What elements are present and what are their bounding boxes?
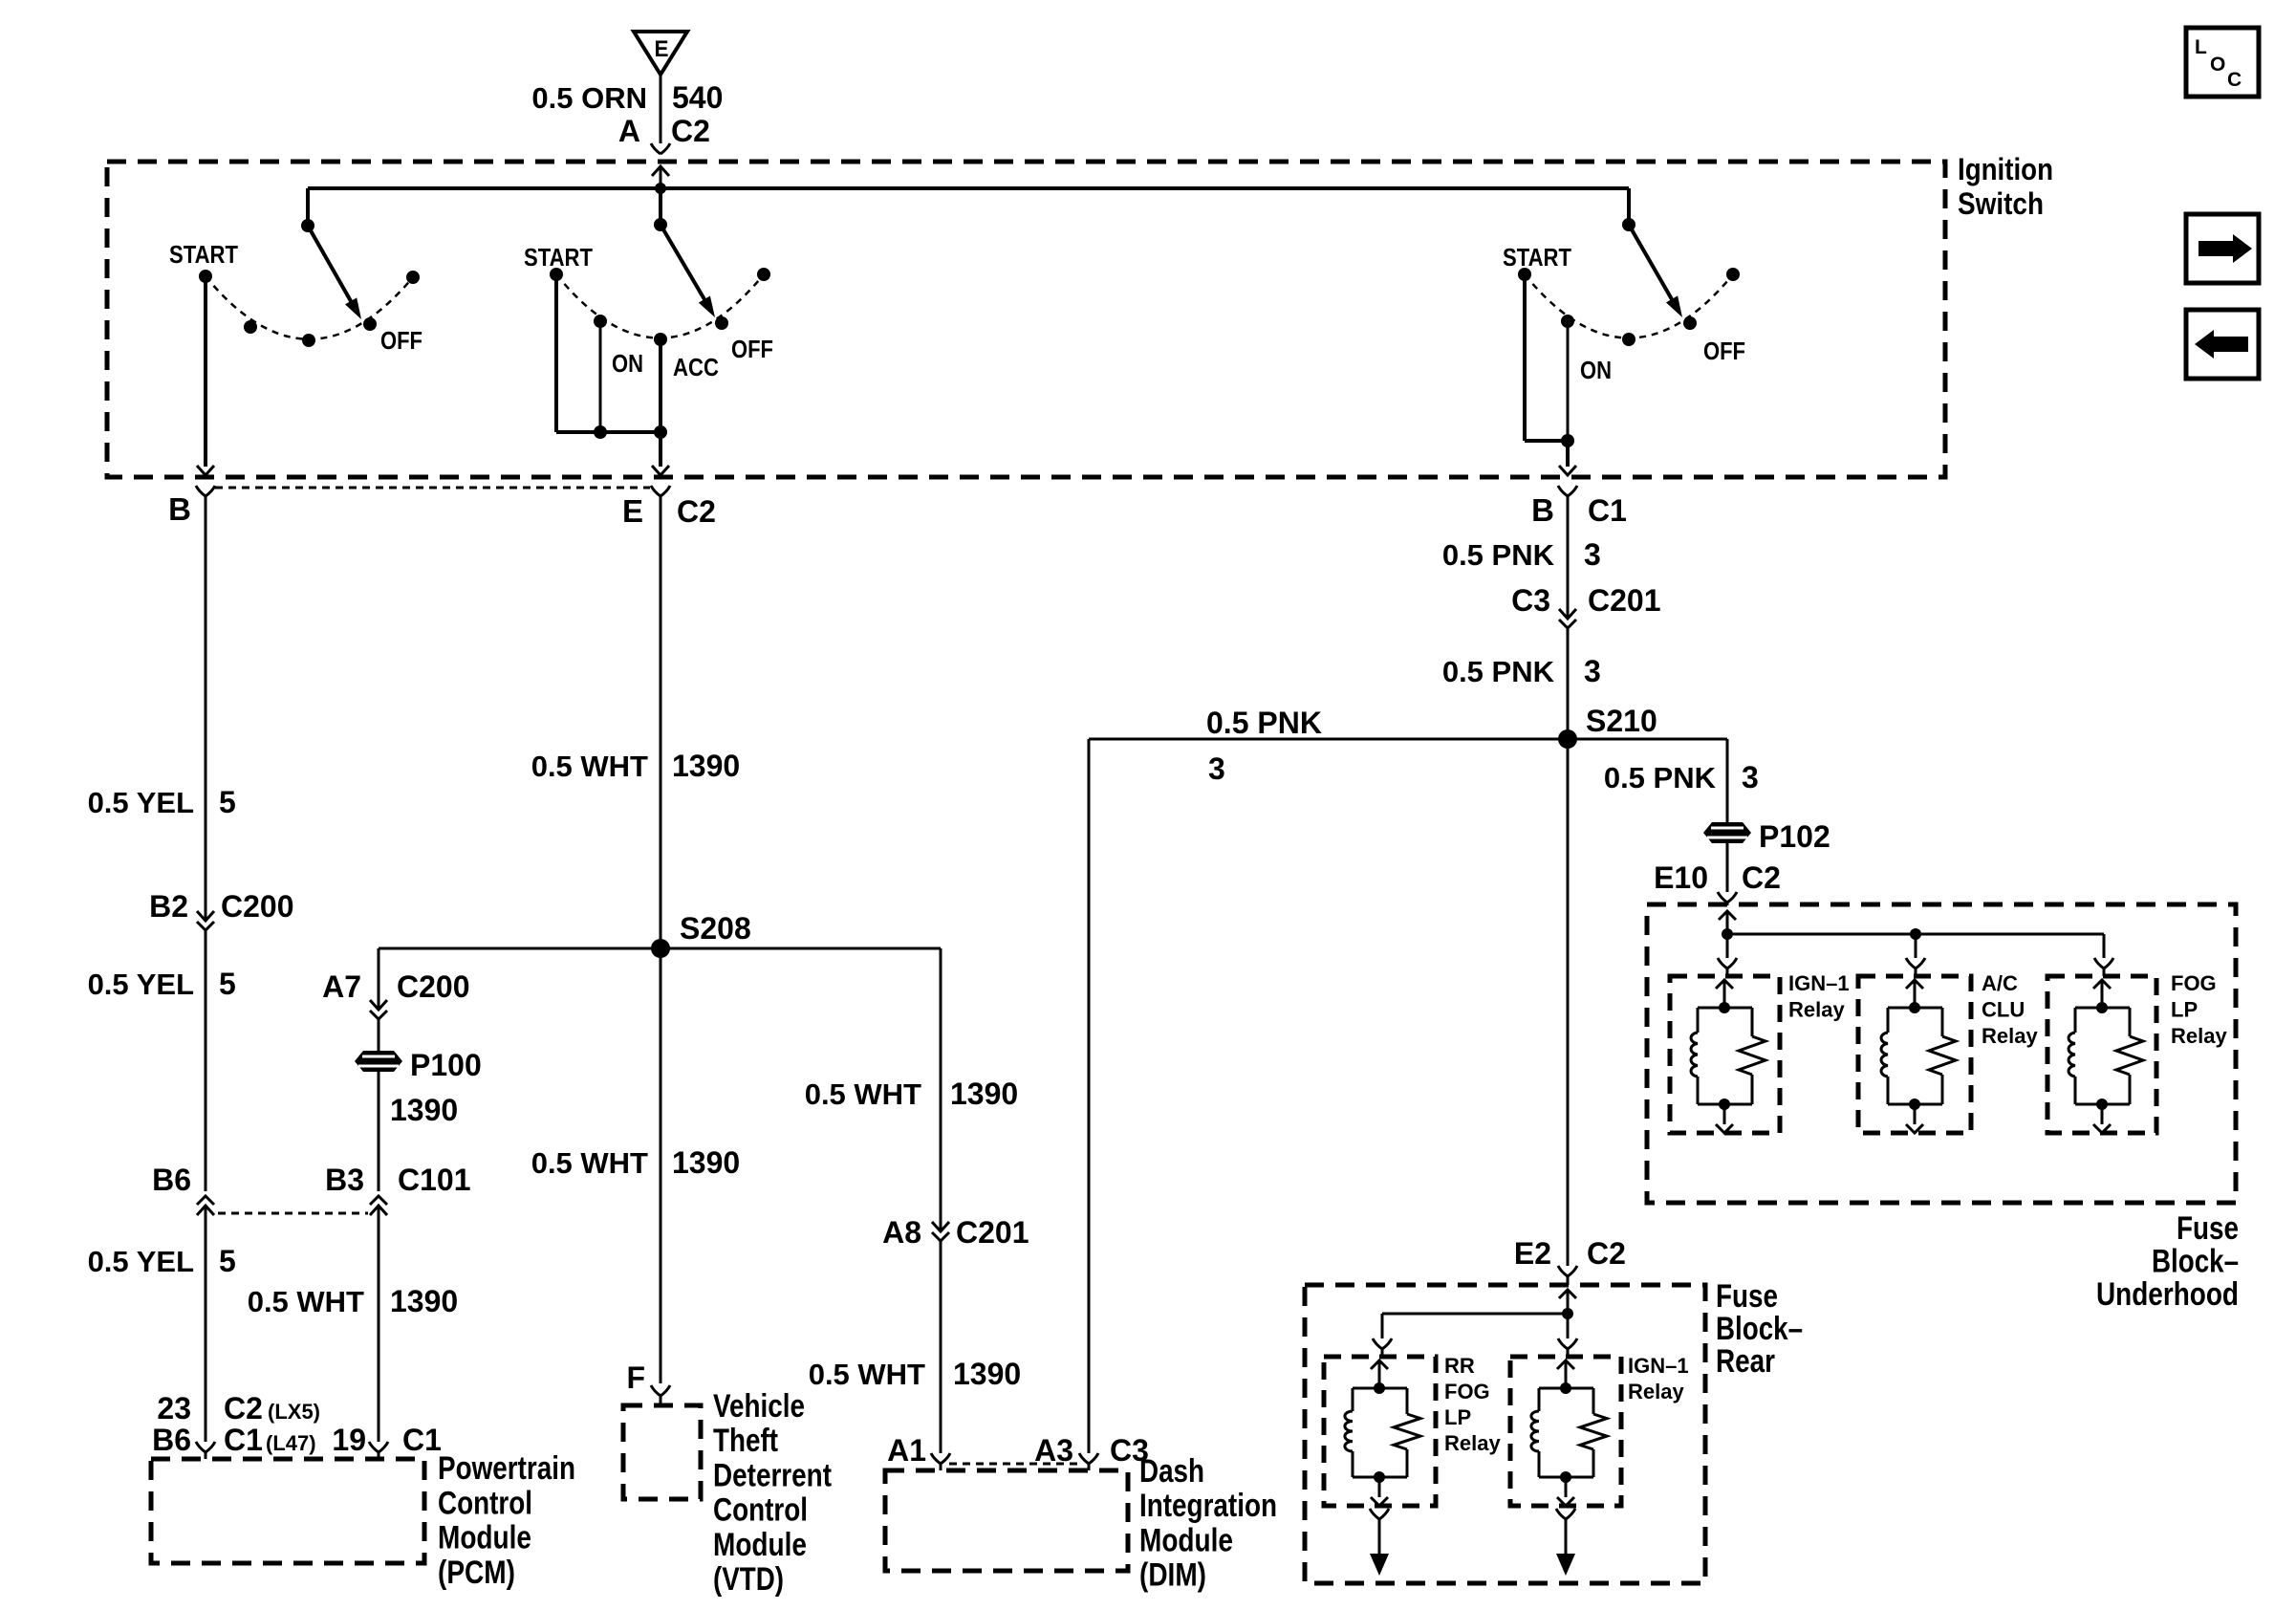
svg-text:C3: C3 [1511,583,1550,618]
svg-text:Relay: Relay [1628,1380,1684,1403]
svg-text:E10: E10 [1654,860,1708,895]
svg-text:5: 5 [219,967,236,1001]
svg-text:E: E [655,36,669,62]
svg-text:0.5 PNK: 0.5 PNK [1442,538,1555,572]
svg-text:0.5 YEL: 0.5 YEL [88,1245,194,1278]
svg-text:B6: B6 [152,1163,191,1197]
svg-text:ON: ON [612,349,643,378]
svg-text:A7: A7 [322,969,361,1004]
svg-text:1390: 1390 [672,749,740,783]
svg-text:Rear: Rear [1716,1343,1775,1380]
svg-text:3: 3 [1584,654,1601,688]
svg-text:Switch: Switch [1958,186,2044,221]
svg-text:Underhood: Underhood [2096,1276,2239,1313]
svg-text:E2: E2 [1514,1236,1551,1271]
svg-text:0.5 WHT: 0.5 WHT [248,1285,364,1318]
svg-text:CLU: CLU [1982,998,2025,1022]
svg-text:C200: C200 [397,969,470,1004]
svg-text:ON: ON [1580,356,1612,384]
svg-text:S208: S208 [680,911,751,946]
svg-text:Relay: Relay [2171,1024,2227,1048]
svg-text:Relay: Relay [1982,1024,2038,1048]
svg-text:A8: A8 [882,1215,921,1250]
svg-text:P102: P102 [1759,819,1830,854]
svg-text:FOG: FOG [2171,971,2217,995]
svg-text:S210: S210 [1586,704,1657,738]
svg-text:1390: 1390 [390,1093,458,1127]
svg-text:C2: C2 [1742,860,1781,895]
svg-text:3: 3 [1584,537,1601,572]
svg-text:Fuse: Fuse [2177,1210,2239,1247]
svg-text:E: E [622,493,643,529]
svg-text:540: 540 [672,80,723,115]
svg-text:Module: Module [713,1527,807,1563]
svg-text:C2: C2 [677,494,716,529]
svg-text:(L47): (L47) [266,1431,316,1455]
svg-text:C101: C101 [398,1163,471,1197]
svg-text:IGN–1: IGN–1 [1788,971,1850,995]
svg-text:A3: A3 [1034,1433,1073,1468]
svg-text:1390: 1390 [950,1077,1018,1111]
svg-text:0.5 PNK: 0.5 PNK [1604,761,1717,794]
svg-text:0.5 YEL: 0.5 YEL [88,786,194,819]
svg-text:C201: C201 [956,1215,1029,1250]
svg-text:L: L [2195,36,2207,58]
svg-text:LP: LP [2171,998,2198,1022]
svg-text:C3: C3 [1110,1433,1149,1468]
svg-text:19: 19 [332,1423,366,1457]
svg-text:(DIM): (DIM) [1139,1557,1206,1594]
svg-text:O: O [2210,54,2225,76]
svg-text:B2: B2 [149,889,188,924]
svg-text:IGN–1: IGN–1 [1628,1354,1689,1378]
svg-text:Fuse: Fuse [1716,1278,1778,1315]
svg-text:A1: A1 [887,1433,926,1468]
svg-text:ACC: ACC [673,353,719,381]
svg-text:(VTD): (VTD) [713,1561,784,1598]
svg-text:C2: C2 [1587,1236,1626,1271]
svg-text:C1: C1 [402,1423,442,1457]
svg-text:RR: RR [1444,1354,1475,1378]
svg-text:0.5 ORN: 0.5 ORN [531,81,647,115]
svg-text:B3: B3 [325,1163,364,1197]
svg-text:Dash: Dash [1139,1453,1204,1490]
svg-text:Module: Module [1139,1522,1233,1558]
svg-text:P100: P100 [410,1048,482,1082]
svg-text:START: START [524,243,593,272]
svg-text:Vehicle: Vehicle [713,1388,805,1425]
svg-text:C201: C201 [1588,583,1661,618]
svg-text:0.5 WHT: 0.5 WHT [531,1146,648,1180]
svg-text:0.5 PNK: 0.5 PNK [1442,655,1555,688]
svg-text:0.5 WHT: 0.5 WHT [805,1077,921,1111]
svg-text:1390: 1390 [390,1284,458,1318]
svg-text:Ignition: Ignition [1958,152,2053,186]
svg-text:B6: B6 [152,1423,191,1457]
svg-text:3: 3 [1208,751,1225,786]
svg-text:Module: Module [438,1520,531,1556]
svg-text:C2: C2 [671,114,710,148]
svg-text:C200: C200 [221,889,294,924]
svg-text:Relay: Relay [1788,998,1845,1022]
svg-text:FOG: FOG [1444,1380,1490,1403]
svg-text:OFF: OFF [1703,337,1745,365]
svg-text:LP: LP [1444,1405,1471,1429]
svg-text:0.5 YEL: 0.5 YEL [88,968,194,1001]
svg-text:C2: C2 [224,1391,263,1425]
svg-text:0.5 WHT: 0.5 WHT [531,750,648,783]
svg-text:C: C [2227,69,2242,91]
svg-text:0.5 PNK: 0.5 PNK [1206,706,1322,740]
svg-text:OFF: OFF [380,326,422,355]
svg-text:(LX5): (LX5) [268,1400,320,1424]
svg-text:(PCM): (PCM) [438,1555,515,1591]
svg-text:1390: 1390 [953,1357,1021,1391]
svg-text:Deterrent: Deterrent [713,1457,832,1493]
svg-text:C1: C1 [224,1423,263,1457]
svg-text:B: B [1531,492,1554,528]
svg-text:23: 23 [157,1391,191,1425]
svg-text:0.5 WHT: 0.5 WHT [809,1358,925,1391]
svg-text:Block–: Block– [1716,1311,1803,1347]
svg-text:START: START [1503,243,1571,272]
svg-text:START: START [169,240,238,269]
svg-text:A/C: A/C [1982,971,2018,995]
svg-text:Powertrain: Powertrain [438,1450,575,1487]
svg-text:5: 5 [219,785,236,819]
svg-text:Integration: Integration [1139,1488,1277,1524]
svg-text:F: F [626,1360,645,1395]
svg-text:Control: Control [713,1492,808,1529]
svg-text:A: A [618,114,640,148]
svg-text:1390: 1390 [672,1145,740,1180]
svg-text:Block–: Block– [2152,1244,2239,1280]
svg-text:C1: C1 [1588,493,1627,528]
svg-text:OFF: OFF [731,335,773,363]
svg-text:5: 5 [219,1244,236,1278]
svg-text:3: 3 [1742,760,1759,794]
svg-text:Relay: Relay [1444,1431,1501,1455]
svg-text:Theft: Theft [713,1423,778,1459]
svg-text:Control: Control [438,1485,532,1521]
svg-text:B: B [168,491,191,527]
